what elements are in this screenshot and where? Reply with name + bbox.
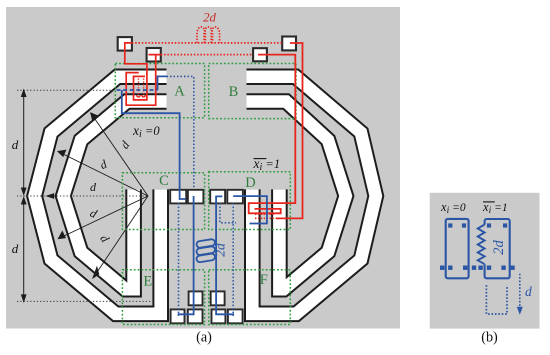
svg-text:d: d [90,180,97,194]
resistor zigzag (b) [478,225,485,265]
red feed from pad 3 to coupler D [249,55,296,214]
svg-text:d: d [12,137,19,152]
pads bottom of right loop (b) [478,266,482,270]
C finger square 2 [188,190,204,204]
svg-text:2d: 2d [491,240,507,255]
red feed from pad 2 into coupler A [126,55,161,106]
svg-text:d: d [525,284,532,299]
top pad square 3 [253,48,267,61]
panel b background [430,193,540,329]
radial arrow upper-left steep [93,116,148,196]
pads top of right loop (b) [487,223,491,227]
dotted reference line top [17,89,116,91]
arrow d (b) [517,274,523,315]
dimension line upper segment [23,92,25,194]
D finger square 2 [227,190,243,204]
svg-text:F: F [260,272,268,288]
qubit loop right with resistor (b) [485,219,510,278]
bottom D lower-left square [212,309,226,323]
qubit loop left (b) [446,219,469,278]
radial arrow lower-left shallow [61,196,148,238]
region box B [209,64,296,119]
red dotted coil 2d [197,27,220,43]
blue dotted drop C finger1 to bottom [178,203,180,316]
ghost qubit dotted (b) [486,285,507,314]
svg-text:xi =0: xi =0 [440,200,466,216]
svg-text:xi =0: xi =0 [132,123,160,140]
left inner ring band [63,102,166,290]
blue dotted run A to C finger 2 [167,76,194,188]
bottom C upper square [189,291,203,305]
region box A [115,64,204,118]
bottom D lower-right square [228,309,243,323]
bottom D upper square [211,291,225,305]
red feed from pad 4 to coupler D [276,43,303,218]
label xbar_i = 1 (b) [482,200,508,216]
red dotted bus line 1 [132,42,282,44]
dotted reference line middle [17,195,148,197]
svg-text:(b): (b) [481,330,498,346]
left outer ring band [35,77,167,314]
blue solid run A to C finger 1 [122,90,186,199]
blue dotted elbow D finger1 [220,203,236,223]
pads top of left loop (b) [448,223,452,227]
region box F [209,270,291,325]
dimension line lower segment [23,199,25,300]
label xbar_i = 1 [253,156,281,173]
svg-text:E: E [143,274,152,290]
red coupler D comb dotted fingers [255,213,274,215]
top pad square 2 [147,48,161,62]
C finger square 1 [170,190,186,204]
svg-text:A: A [174,84,185,100]
top pad square 1 [118,37,132,51]
svg-text:(a): (a) [196,330,212,346]
red dotted bus line 2 [161,54,253,56]
right inner ring band [247,102,346,290]
blue dotted drop D finger2 to bottom [232,203,234,316]
blue solid loop D finger2 to coupler [233,196,267,223]
svg-text:2d: 2d [203,11,216,25]
blue coil 2d vertical [196,239,215,263]
blue dashed segment region A [117,89,158,91]
red feed from pad 1 into coupler A [125,43,147,100]
blue solid drop C finger2 with coil to bottom U [178,196,194,314]
radial arrow left (on dotted line) [47,194,54,199]
pads bottom of left loop (b) [440,266,444,270]
panel a background [6,7,400,329]
svg-text:2d: 2d [213,243,228,257]
svg-text:d: d [12,241,19,256]
right outer ring band [247,77,376,314]
radial arrow upper-left shallow [60,153,148,196]
region box C [122,173,204,230]
red coupler A comb dotted fingers [137,79,139,96]
svg-text:C: C [159,173,169,189]
dotted reference line bottom [17,300,151,302]
bottom C lower-right square [188,309,203,323]
radial arrow lower-left steep [95,196,148,275]
svg-text:D: D [245,175,255,191]
region box D [209,172,291,230]
svg-text:B: B [229,84,239,100]
D finger square 1 [210,190,225,204]
top pad square 4 [282,37,296,51]
blue solid drop D finger1 to bottom U [216,196,234,314]
region box E [122,270,204,325]
bottom C lower-left square [171,309,185,323]
blue solid elbow region A [158,76,167,90]
